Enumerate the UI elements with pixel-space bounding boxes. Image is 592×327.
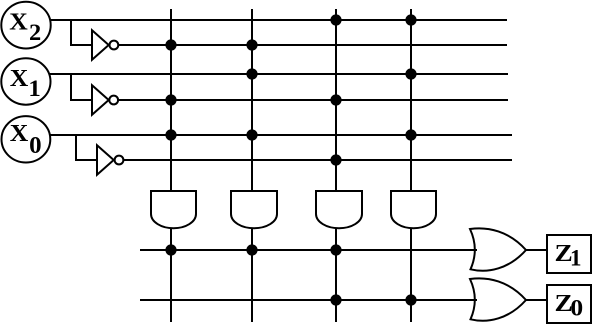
junction Z0row col4 [406, 295, 415, 304]
inverter U2 (X1) [92, 85, 118, 115]
junction row3 col2 [247, 69, 256, 78]
wire row6 X0 inverted line [124, 159, 512, 161]
wire column 1 input [170, 9, 172, 191]
junction row2 col1 [166, 40, 175, 49]
output box Z1 [547, 235, 591, 273]
AND gate G3 [316, 191, 362, 228]
junction row5 col1 [166, 130, 175, 139]
svg-text:1: 1 [570, 246, 582, 271]
wire OR1 output to Z1 box [526, 249, 547, 251]
wire row2 X2 inverted line [119, 44, 507, 46]
wire row1 X2 true line [50, 19, 507, 21]
output box Z0 [547, 285, 591, 323]
input circle X2 [1, 2, 50, 49]
junction Z1row col3 [331, 245, 340, 254]
AND gate G1 [151, 191, 196, 228]
wire Z1 row [140, 249, 477, 251]
inverter U1 (X2) [92, 30, 118, 60]
wire column 3 output [335, 228, 337, 322]
AND gate G4 [391, 191, 436, 228]
svg-text:X: X [10, 121, 29, 147]
input circle X1 [1, 58, 50, 104]
junction row5 col2 [247, 130, 256, 139]
wire OR2 output to Z0 box [526, 299, 547, 301]
svg-text:X: X [10, 66, 29, 92]
wire branch to inverter U1 [71, 20, 93, 45]
wire column 1 output [170, 228, 172, 322]
svg-text:0: 0 [570, 296, 583, 322]
wire Z0 row [140, 299, 477, 301]
svg-text:0: 0 [29, 132, 41, 158]
junction row3 col4 [406, 69, 415, 78]
junction row4 col3 [331, 95, 340, 104]
wire row3 X1 true line [50, 73, 508, 75]
junction row1 col4 [406, 15, 415, 24]
wire column 3 input [335, 9, 337, 191]
junction row4 col1 [166, 95, 175, 104]
input circle X0 [2, 116, 51, 162]
wire column 2 output [251, 228, 253, 322]
svg-text:1: 1 [28, 77, 40, 102]
junction row2 col2 [247, 40, 256, 49]
junction row6 col3 [331, 155, 340, 164]
junction Z1row col2 [247, 245, 256, 254]
junction row5 col4 [406, 130, 415, 139]
OR gate U5 (Z0) [470, 278, 526, 320]
wire branch to inverter U3 [76, 135, 98, 160]
wire row5 X0 true line [50, 134, 512, 136]
wire column 4 input [410, 9, 412, 191]
svg-text:2: 2 [29, 20, 41, 45]
inverter U3 (X0) [97, 145, 123, 175]
junction Z0row col3 [331, 295, 340, 304]
wire row4 X1 inverted line [118, 99, 508, 101]
wire column 2 input [251, 9, 253, 191]
junction Z1row col1 [166, 245, 175, 254]
svg-text:X: X [9, 9, 28, 35]
OR gate U4 (Z1) [470, 228, 526, 270]
AND gate G2 [231, 191, 277, 228]
wire branch to inverter U2 [71, 74, 93, 100]
junction row1 col3 [331, 15, 340, 24]
wire column 4 output [410, 228, 412, 322]
